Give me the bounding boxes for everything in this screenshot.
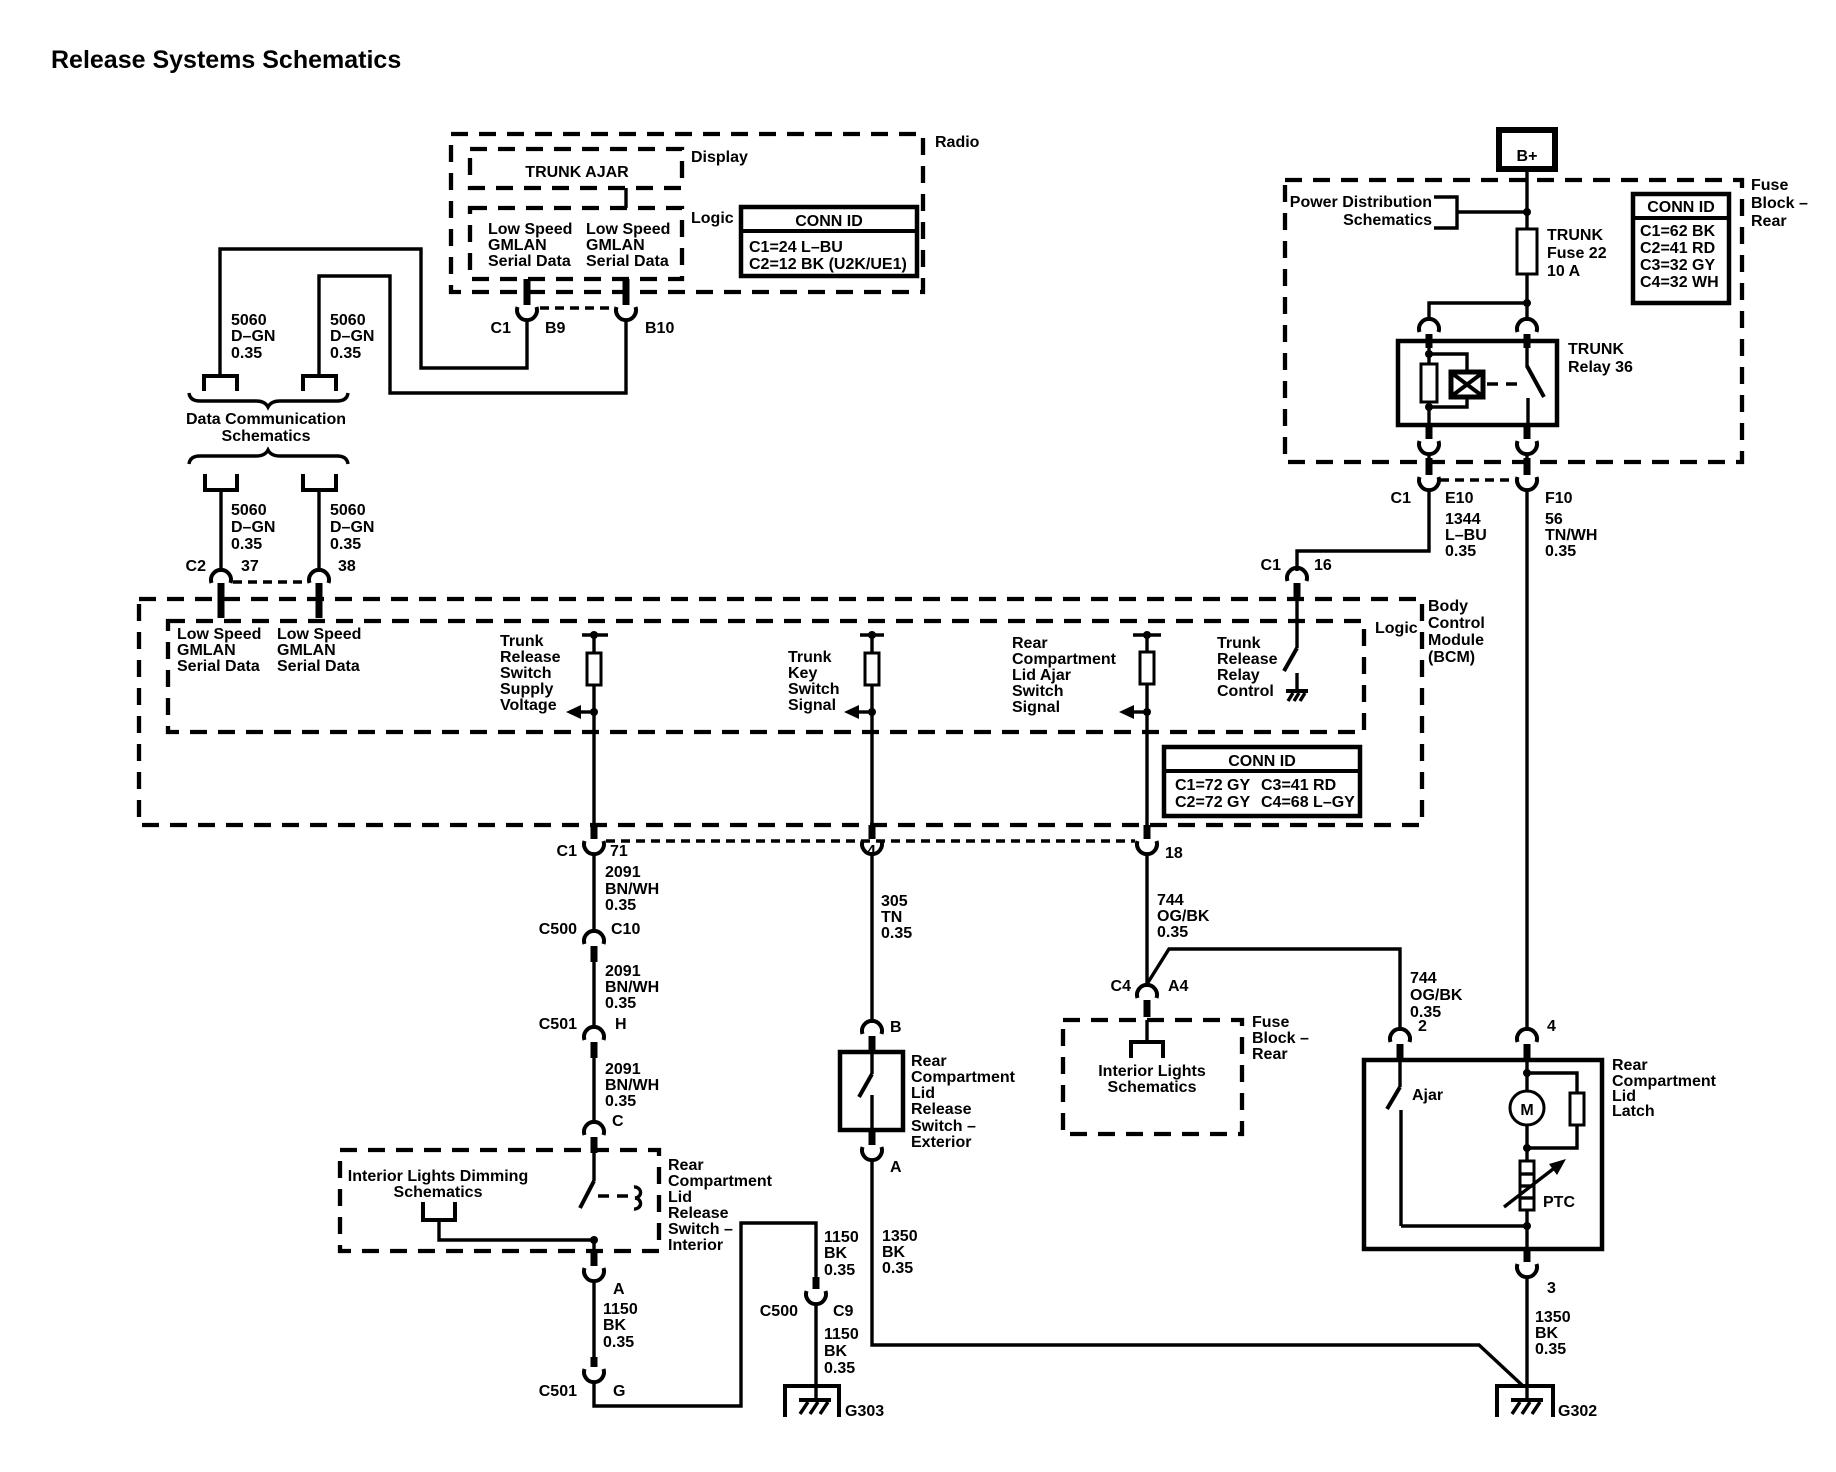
svg-text:Serial Data: Serial Data bbox=[177, 658, 260, 675]
trunk release relay control switch bbox=[1284, 599, 1297, 690]
trunk key switch signal input bbox=[844, 631, 884, 825]
svg-text:Low Speed: Low Speed bbox=[586, 221, 670, 238]
svg-text:Body: Body bbox=[1428, 598, 1468, 615]
svg-text:Control: Control bbox=[1428, 615, 1485, 632]
TRUNK Relay 36 box bbox=[1398, 341, 1633, 425]
svg-text:BK: BK bbox=[603, 1317, 627, 1334]
svg-text:(BCM): (BCM) bbox=[1428, 649, 1475, 666]
svg-text:C4: C4 bbox=[1111, 978, 1132, 995]
wire label 5060 D-GN 0.35 (right lower) bbox=[330, 502, 374, 553]
svg-text:A: A bbox=[890, 1159, 902, 1176]
svg-text:1150: 1150 bbox=[824, 1326, 859, 1343]
svg-text:BN/WH: BN/WH bbox=[605, 881, 659, 898]
connector C2 pin 37 bbox=[186, 558, 259, 618]
wire dimming feed bbox=[439, 1222, 594, 1240]
svg-text:2091: 2091 bbox=[605, 963, 641, 980]
svg-text:Display: Display bbox=[691, 149, 748, 166]
svg-text:Fuse: Fuse bbox=[1751, 177, 1788, 194]
Rear Compartment Lid Latch box bbox=[1364, 1057, 1717, 1249]
svg-text:BN/WH: BN/WH bbox=[605, 979, 659, 996]
label Rear Compartment Lid Release Switch - Exterior bbox=[911, 1053, 1016, 1151]
svg-text:C9: C9 bbox=[833, 1303, 854, 1320]
svg-text:A4: A4 bbox=[1168, 978, 1189, 995]
wire label 5060 D-GN 0.35 (left upper) bbox=[231, 312, 275, 362]
dotted link 37-38 bbox=[233, 580, 306, 584]
svg-text:C2: C2 bbox=[186, 558, 207, 575]
svg-text:1350: 1350 bbox=[882, 1228, 918, 1245]
BCM GMLAN inputs text bbox=[177, 626, 361, 675]
rear compartment lid ajar switch signal input bbox=[1119, 631, 1161, 825]
svg-text:BN/WH: BN/WH bbox=[605, 1077, 659, 1094]
svg-text:16: 16 bbox=[1314, 557, 1332, 574]
svg-text:C1=62 BK: C1=62 BK bbox=[1640, 223, 1716, 240]
svg-text:Relay: Relay bbox=[1217, 667, 1260, 684]
Power Distribution Schematics reference bbox=[1290, 194, 1527, 229]
label Interior Lights Schematics bbox=[1098, 1063, 1206, 1096]
svg-text:C2=12 BK (U2K/UE1): C2=12 BK (U2K/UE1) bbox=[749, 256, 907, 273]
svg-text:Schematics: Schematics bbox=[394, 1184, 483, 1201]
svg-text:Data Communication: Data Communication bbox=[186, 411, 346, 428]
svg-text:C501: C501 bbox=[539, 1383, 577, 1400]
resistor bottom wire bbox=[1527, 1125, 1577, 1148]
svg-text:Rear: Rear bbox=[1012, 635, 1048, 652]
wire pin 3 to G302 bbox=[1525, 1277, 1528, 1400]
svg-text:Release: Release bbox=[1217, 651, 1278, 668]
svg-text:0.35: 0.35 bbox=[330, 345, 361, 362]
svg-text:3: 3 bbox=[1547, 1280, 1556, 1297]
svg-text:744: 744 bbox=[1410, 970, 1437, 987]
svg-text:C1: C1 bbox=[1391, 490, 1412, 507]
ajar switch (latch) bbox=[1387, 1060, 1526, 1226]
svg-text:Rear: Rear bbox=[1252, 1046, 1288, 1063]
connector C1 16 (BCM) bbox=[1261, 557, 1332, 599]
svg-text:Rear: Rear bbox=[911, 1053, 947, 1070]
svg-text:L–BU: L–BU bbox=[1445, 527, 1487, 544]
ground (BCM internal) bbox=[1286, 691, 1308, 701]
svg-text:Low Speed: Low Speed bbox=[488, 221, 572, 238]
svg-text:5060: 5060 bbox=[231, 312, 267, 329]
svg-text:CONN ID: CONN ID bbox=[795, 213, 863, 230]
brace lower bbox=[189, 450, 348, 464]
svg-text:TRUNK: TRUNK bbox=[1547, 227, 1603, 244]
wire to relay winding bbox=[1429, 354, 1467, 372]
svg-text:744: 744 bbox=[1157, 892, 1184, 909]
connector relay coil top bbox=[1419, 319, 1439, 348]
svg-text:Low Speed: Low Speed bbox=[277, 626, 361, 643]
wire C9 to G303 bbox=[814, 1304, 817, 1400]
ground G303 bbox=[785, 1386, 884, 1420]
label Data Communication Schematics bbox=[186, 411, 346, 445]
svg-text:2: 2 bbox=[1418, 1018, 1427, 1035]
relay winding bbox=[1451, 372, 1483, 397]
relay switch contact bbox=[1525, 341, 1528, 367]
svg-text:0.35: 0.35 bbox=[605, 995, 636, 1012]
svg-text:Switch: Switch bbox=[1012, 683, 1064, 700]
svg-text:Signal: Signal bbox=[788, 697, 836, 714]
fuse TRUNK Fuse 22 10 A bbox=[1517, 227, 1607, 280]
svg-text:Logic: Logic bbox=[691, 210, 734, 227]
svg-text:C4=32 WH: C4=32 WH bbox=[1640, 274, 1719, 291]
svg-text:Supply: Supply bbox=[500, 681, 553, 698]
svg-text:Schematics: Schematics bbox=[1108, 1079, 1197, 1096]
svg-text:CONN ID: CONN ID bbox=[1228, 753, 1296, 770]
wire branch to relay switch pin bbox=[1525, 303, 1528, 321]
Radio box bbox=[451, 134, 980, 292]
connector pin 4 (BCM bottom) bbox=[862, 825, 882, 860]
motor bottom node bbox=[1525, 1125, 1528, 1161]
svg-text:C500: C500 bbox=[539, 921, 577, 938]
wire B10 to data-comm terminal 2 bbox=[319, 276, 626, 393]
wire 744 OG/BK (pin 18 down) bbox=[1145, 854, 1148, 987]
wire branch to latch ajar pin 2 bbox=[1147, 949, 1400, 1031]
svg-text:0.35: 0.35 bbox=[881, 925, 912, 942]
svg-text:Serial Data: Serial Data bbox=[488, 253, 571, 270]
dashed actuating link bbox=[1487, 382, 1517, 386]
wire label 1350 BK 0.35 bbox=[882, 1228, 918, 1277]
svg-text:Fuse 22: Fuse 22 bbox=[1547, 245, 1607, 262]
label Trunk Release Switch Supply Voltage bbox=[500, 633, 561, 714]
svg-text:CONN ID: CONN ID bbox=[1647, 199, 1715, 216]
svg-text:Switch: Switch bbox=[788, 681, 840, 698]
node PDS tap bbox=[1523, 208, 1531, 216]
resistor (latch) bbox=[1570, 1093, 1584, 1125]
svg-text:Interior: Interior bbox=[668, 1237, 723, 1254]
wire 2091 BN/WH (C501 to switch) bbox=[592, 1058, 595, 1124]
svg-text:C500: C500 bbox=[760, 1303, 798, 1320]
svg-text:Rear: Rear bbox=[1612, 1057, 1648, 1074]
svg-text:C: C bbox=[612, 1113, 624, 1130]
svg-text:C3=32 GY: C3=32 GY bbox=[1640, 257, 1715, 274]
svg-text:37: 37 bbox=[241, 558, 259, 575]
svg-text:1150: 1150 bbox=[603, 1301, 638, 1318]
svg-text:B: B bbox=[890, 1019, 902, 1036]
trunk release switch supply voltage driver bbox=[566, 631, 608, 825]
connector pin A (interior switch) bbox=[584, 1252, 625, 1298]
svg-text:B+: B+ bbox=[1517, 148, 1538, 165]
terminal 2 (to Data Communication Schematics) bbox=[303, 376, 336, 391]
svg-text:B9: B9 bbox=[545, 320, 566, 337]
Radio logic box bbox=[470, 208, 734, 279]
wire B9 to data-comm terminal 1 bbox=[220, 249, 527, 374]
svg-text:PTC: PTC bbox=[1543, 1194, 1575, 1211]
svg-text:Switch –: Switch – bbox=[668, 1221, 733, 1238]
svg-text:C2=41 RD: C2=41 RD bbox=[1640, 240, 1715, 257]
svg-text:OG/BK: OG/BK bbox=[1410, 987, 1463, 1004]
terminal 3 (from Data Communication Schematics) bbox=[205, 474, 237, 490]
svg-text:D–GN: D–GN bbox=[231, 519, 275, 536]
label Trunk Release Relay Control bbox=[1217, 635, 1278, 700]
Body Control Module box bbox=[139, 598, 1485, 825]
svg-text:Rear: Rear bbox=[1751, 213, 1787, 230]
terminal (to Interior Lights Schematics) bbox=[1131, 1042, 1163, 1058]
label Rear Compartment Lid Ajar Switch Signal bbox=[1012, 635, 1117, 716]
svg-text:38: 38 bbox=[338, 558, 356, 575]
svg-text:Lid: Lid bbox=[668, 1189, 692, 1206]
dotted link BCM bottom connectors bbox=[606, 839, 1135, 843]
PTC thermistor bbox=[1504, 1159, 1575, 1211]
svg-text:GMLAN: GMLAN bbox=[488, 237, 547, 254]
svg-text:OG/BK: OG/BK bbox=[1157, 908, 1210, 925]
svg-text:Serial Data: Serial Data bbox=[277, 658, 360, 675]
svg-text:0.35: 0.35 bbox=[1545, 543, 1576, 560]
exterior switch blade bbox=[859, 1052, 872, 1130]
node fuse branch bbox=[1523, 299, 1531, 307]
svg-text:Switch: Switch bbox=[500, 665, 552, 682]
svg-text:Radio: Radio bbox=[935, 134, 980, 151]
svg-text:5060: 5060 bbox=[330, 502, 366, 519]
B+ battery feed bbox=[1499, 130, 1555, 169]
wire label 2091 BN/WH 0.35 bbox=[605, 864, 659, 914]
CONN ID table (BCM) bbox=[1164, 747, 1360, 816]
connector F10 bbox=[1517, 453, 1573, 507]
wire fuse to relay branch bbox=[1525, 274, 1528, 303]
svg-text:BK: BK bbox=[1535, 1325, 1559, 1342]
svg-text:4: 4 bbox=[1547, 1018, 1556, 1035]
wire label 1150 BK 0.35 bbox=[603, 1301, 638, 1351]
ground G302 bbox=[1497, 1386, 1597, 1420]
svg-text:D–GN: D–GN bbox=[231, 328, 275, 345]
svg-text:H: H bbox=[615, 1016, 627, 1033]
svg-text:Fuse: Fuse bbox=[1252, 1014, 1289, 1031]
svg-text:0.35: 0.35 bbox=[1535, 1341, 1566, 1358]
wire label 2091 BN/WH 0.35 bbox=[605, 1061, 659, 1110]
svg-text:305: 305 bbox=[881, 893, 908, 910]
label Trunk Key Switch Signal bbox=[788, 649, 840, 714]
wire G routing to C500 C9 bbox=[594, 1223, 816, 1406]
CONN ID table (Fuse Block - Rear) bbox=[1633, 194, 1729, 303]
relay switch blade bbox=[1527, 366, 1544, 397]
svg-text:0.35: 0.35 bbox=[231, 345, 262, 362]
svg-text:C10: C10 bbox=[611, 921, 640, 938]
svg-text:C1=24 L–BU: C1=24 L–BU bbox=[749, 239, 843, 256]
connector C1 71 (BCM bottom) bbox=[557, 825, 628, 860]
wire label 744 OG/BK 0.35 bbox=[1157, 892, 1210, 941]
wire A to C501 G bbox=[592, 1281, 595, 1357]
svg-text:Interior Lights: Interior Lights bbox=[1098, 1063, 1206, 1080]
svg-text:0.35: 0.35 bbox=[1445, 543, 1476, 560]
svg-text:TN: TN bbox=[881, 909, 902, 926]
svg-text:BK: BK bbox=[824, 1343, 848, 1360]
wire switch to pin A bbox=[592, 1240, 595, 1252]
brace upper bbox=[189, 393, 348, 407]
connector pin 3 (latch) bbox=[1517, 1249, 1556, 1297]
wire label 1150 BK 0.35 (above C9) bbox=[824, 1229, 859, 1279]
svg-text:1150: 1150 bbox=[824, 1229, 859, 1246]
svg-text:5060: 5060 bbox=[231, 502, 267, 519]
wire E10 to BCM C1 16 bbox=[1297, 490, 1429, 571]
svg-text:C1=72 GY: C1=72 GY bbox=[1175, 777, 1250, 794]
connector relay switch bottom bbox=[1517, 425, 1537, 454]
svg-text:5060: 5060 bbox=[330, 312, 366, 329]
svg-text:GMLAN: GMLAN bbox=[586, 237, 645, 254]
svg-text:GMLAN: GMLAN bbox=[277, 642, 336, 659]
BCM Logic box bbox=[168, 620, 1418, 732]
svg-text:71: 71 bbox=[610, 843, 628, 860]
connector pin 4 (latch) bbox=[1517, 1018, 1556, 1061]
wire winding bottom bbox=[1429, 397, 1467, 407]
svg-text:C3=41 RD: C3=41 RD bbox=[1261, 777, 1336, 794]
svg-text:Key: Key bbox=[788, 665, 817, 682]
connector C1 E10 bbox=[1391, 453, 1474, 507]
svg-text:1344: 1344 bbox=[1445, 511, 1481, 528]
svg-text:Latch: Latch bbox=[1612, 1103, 1655, 1120]
svg-text:E10: E10 bbox=[1445, 490, 1474, 507]
wire B+ down bbox=[1525, 169, 1528, 229]
svg-text:Release: Release bbox=[500, 649, 561, 666]
svg-text:10 A: 10 A bbox=[1547, 263, 1581, 280]
wire terminal3 down bbox=[219, 492, 222, 572]
interior release switch blade bbox=[580, 1153, 641, 1209]
svg-text:0.35: 0.35 bbox=[882, 1260, 913, 1277]
svg-text:A: A bbox=[613, 1281, 625, 1298]
wire 2091 BN/WH (71 to C500) bbox=[592, 854, 595, 933]
svg-text:0.35: 0.35 bbox=[824, 1262, 855, 1279]
wire label 305 TN 0.35 bbox=[881, 893, 912, 942]
svg-text:C1: C1 bbox=[557, 843, 578, 860]
relay coil branch wires bbox=[1427, 341, 1430, 364]
connector C500 C9 bbox=[760, 1277, 854, 1320]
svg-text:D–GN: D–GN bbox=[330, 519, 374, 536]
terminal 1 (to Data Communication Schematics) bbox=[204, 376, 237, 391]
svg-text:BK: BK bbox=[882, 1244, 906, 1261]
svg-text:Signal: Signal bbox=[1012, 699, 1060, 716]
connector pin B (exterior switch) bbox=[862, 1019, 902, 1052]
dotted link E10-F10 bbox=[1440, 478, 1516, 482]
label Rear Compartment Lid Release Switch - Interior bbox=[668, 1157, 773, 1254]
svg-text:Lid: Lid bbox=[911, 1085, 935, 1102]
svg-text:C1: C1 bbox=[1261, 557, 1282, 574]
node relay coil bottom bbox=[1425, 403, 1433, 411]
svg-text:C2=72 GY: C2=72 GY bbox=[1175, 794, 1250, 811]
connector relay coil bottom bbox=[1419, 425, 1439, 454]
svg-text:Interior Lights Dimming: Interior Lights Dimming bbox=[348, 1168, 528, 1185]
wire display-to-logic bbox=[624, 188, 627, 208]
svg-text:BK: BK bbox=[824, 1245, 848, 1262]
relay switch lower contact bbox=[1526, 398, 1529, 425]
wire A to G302 bbox=[872, 1160, 1522, 1385]
svg-text:Switch –: Switch – bbox=[911, 1118, 976, 1135]
svg-text:18: 18 bbox=[1165, 845, 1183, 862]
wire label 56 TN/WH 0.35 bbox=[1545, 511, 1597, 560]
svg-text:TRUNK: TRUNK bbox=[1568, 341, 1624, 358]
svg-text:0.35: 0.35 bbox=[603, 1334, 634, 1351]
wire terminal4 down bbox=[317, 492, 320, 572]
svg-text:Low Speed: Low Speed bbox=[177, 626, 261, 643]
wire label 5060 D-GN 0.35 (left lower) bbox=[231, 502, 275, 553]
svg-text:Control: Control bbox=[1217, 683, 1274, 700]
svg-text:Rear: Rear bbox=[668, 1157, 704, 1174]
wire label 744 OG/BK 0.35 (branch) bbox=[1410, 970, 1463, 1021]
svg-text:Release: Release bbox=[668, 1205, 729, 1222]
svg-text:C1: C1 bbox=[491, 320, 512, 337]
svg-text:Ajar: Ajar bbox=[1412, 1087, 1443, 1104]
connector pin 2 (latch) bbox=[1390, 1018, 1427, 1061]
svg-text:GMLAN: GMLAN bbox=[177, 642, 236, 659]
svg-text:Voltage: Voltage bbox=[500, 697, 557, 714]
wire label 2091 BN/WH 0.35 bbox=[605, 963, 659, 1012]
wire F10 down to latch pin 4 bbox=[1525, 490, 1528, 1031]
svg-text:Schematics: Schematics bbox=[1343, 212, 1432, 229]
svg-text:1350: 1350 bbox=[1535, 1309, 1571, 1326]
svg-text:Trunk: Trunk bbox=[788, 649, 832, 666]
svg-text:Compartment: Compartment bbox=[668, 1173, 773, 1190]
svg-text:G: G bbox=[613, 1383, 625, 1400]
motor feed node bbox=[1525, 1060, 1528, 1091]
connector C501 G bbox=[539, 1357, 626, 1400]
connector relay switch top bbox=[1517, 319, 1537, 348]
wire label 5060 D-GN 0.35 (right upper) bbox=[330, 312, 374, 362]
svg-text:0.35: 0.35 bbox=[605, 897, 636, 914]
svg-text:Power Distribution: Power Distribution bbox=[1290, 194, 1432, 211]
connector C501 H bbox=[539, 1016, 627, 1058]
svg-text:Trunk: Trunk bbox=[1217, 635, 1261, 652]
svg-text:Logic: Logic bbox=[1375, 620, 1418, 637]
rear compartment lid release switch exterior box bbox=[840, 1052, 903, 1130]
svg-text:G302: G302 bbox=[1558, 1403, 1597, 1420]
connector C1 B9 bbox=[491, 279, 566, 337]
connector C500 C10 bbox=[539, 921, 641, 962]
svg-text:TRUNK AJAR: TRUNK AJAR bbox=[525, 164, 629, 181]
svg-text:2091: 2091 bbox=[605, 1061, 641, 1078]
svg-text:Lid Ajar: Lid Ajar bbox=[1012, 667, 1071, 684]
wire label 1150 BK 0.35 (below C9) bbox=[824, 1326, 859, 1377]
svg-text:B10: B10 bbox=[645, 320, 674, 337]
wire branch to relay coil pin bbox=[1429, 303, 1527, 321]
svg-text:Block –: Block – bbox=[1751, 195, 1808, 212]
svg-text:Release Systems Schematics: Release Systems Schematics bbox=[51, 46, 401, 74]
svg-text:Block –: Block – bbox=[1252, 1030, 1309, 1047]
svg-text:Release: Release bbox=[911, 1101, 972, 1118]
Fuse Block - Rear box bbox=[1285, 177, 1808, 462]
resistor (relay coil suppression) bbox=[1421, 364, 1437, 402]
svg-text:56: 56 bbox=[1545, 511, 1563, 528]
connector pin 38 bbox=[309, 558, 356, 618]
node dimming tap bbox=[590, 1236, 598, 1244]
svg-text:0.35: 0.35 bbox=[330, 536, 361, 553]
node relay coil top bbox=[1425, 350, 1433, 358]
svg-text:C501: C501 bbox=[539, 1016, 577, 1033]
svg-text:0.35: 0.35 bbox=[605, 1093, 636, 1110]
Radio display box bbox=[470, 149, 748, 188]
wire PTC to pin 3 bbox=[1525, 1210, 1528, 1249]
Interior Lights Dimming Schematics box bbox=[340, 1150, 659, 1251]
connector pin C (interior switch) bbox=[584, 1113, 624, 1153]
dotted link B9-B10 bbox=[540, 306, 614, 310]
svg-text:Trunk: Trunk bbox=[500, 633, 544, 650]
svg-text:Compartment: Compartment bbox=[911, 1069, 1016, 1086]
svg-text:TN/WH: TN/WH bbox=[1545, 527, 1597, 544]
svg-text:Relay 36: Relay 36 bbox=[1568, 359, 1633, 376]
Fuse Block - Rear lower box bbox=[1063, 1014, 1309, 1134]
svg-text:M: M bbox=[1520, 1102, 1533, 1119]
svg-text:G303: G303 bbox=[845, 1403, 884, 1420]
connector B10 bbox=[616, 279, 674, 337]
terminal 4 (from Data Communication Schematics) bbox=[303, 474, 336, 490]
CONN ID table (Radio) bbox=[741, 207, 917, 276]
wire label 1350 BK 0.35 (latch) bbox=[1535, 1309, 1571, 1358]
svg-text:C4=68 L–GY: C4=68 L–GY bbox=[1261, 794, 1355, 811]
svg-text:2091: 2091 bbox=[605, 864, 641, 881]
wire 2091 BN/WH (C500 to C501) bbox=[592, 962, 595, 1029]
svg-text:Compartment: Compartment bbox=[1012, 651, 1117, 668]
node ajar/PTC junction bbox=[1523, 1222, 1531, 1230]
motor shunt branch bbox=[1527, 1073, 1577, 1093]
wire label 1344 L-BU 0.35 bbox=[1445, 511, 1487, 560]
terminal (from Interior Lights Dimming Schematics) bbox=[423, 1202, 455, 1220]
connector pin 18 (BCM bottom) bbox=[1137, 825, 1183, 862]
svg-text:0.35: 0.35 bbox=[1157, 924, 1188, 941]
wire resistor bottom bbox=[1427, 402, 1430, 425]
